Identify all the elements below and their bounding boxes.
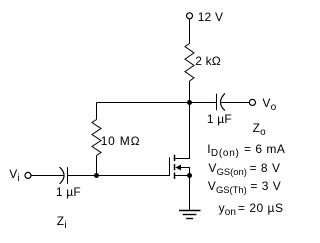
node source junction	[187, 173, 192, 178]
label VGS(Th) symbol	[208, 180, 247, 192]
transistor Q1 channel bottom segment	[174, 173, 176, 179]
label 12 V	[198, 11, 224, 23]
label yon value 20 uS	[238, 202, 283, 214]
terminal 12V supply	[187, 13, 193, 19]
transistor Q1 drain lead	[175, 103, 190, 159]
label VGS(on) symbol	[208, 162, 246, 174]
transistor Q1 channel middle segment	[174, 164, 176, 170]
wire gate lead	[97, 175, 170, 177]
wire body tie	[180, 168, 189, 176]
ground bar 2	[183, 214, 197, 216]
capacitor C1 straight plate	[67, 167, 69, 184]
terminal Vi	[25, 172, 31, 178]
label Vi	[9, 168, 19, 181]
capacitor C2 curved plate	[220, 93, 224, 110]
label 10 MOhm	[101, 135, 141, 147]
label yon symbol	[219, 202, 236, 215]
transistor Q1 source lead	[175, 175, 190, 177]
label 2 kOhm	[195, 55, 221, 67]
wire RF lower lead	[96, 156, 98, 176]
capacitor C1 curved plate	[60, 167, 64, 184]
ground bar 1	[179, 210, 201, 212]
label VGS(Th) value 3 V	[250, 180, 281, 192]
wire source to ground	[189, 176, 191, 211]
wire Vi to C1	[31, 175, 64, 177]
node gate junction	[94, 173, 99, 178]
label 1 uF input	[56, 186, 81, 198]
transistor Q1 channel top segment	[174, 155, 176, 161]
label ID(on) symbol	[207, 143, 239, 156]
resistor RD 2 kOhm	[185, 44, 194, 82]
wire C1 to gate node	[68, 175, 97, 177]
transistor Q1 gate bar	[169, 157, 171, 176]
wire feedback top	[97, 102, 190, 104]
wire supply stem	[189, 19, 191, 44]
label Zo	[253, 122, 266, 135]
label Vo	[262, 97, 276, 110]
label VGS(on) value 8 V	[250, 162, 281, 174]
terminal Vo	[249, 99, 255, 105]
wire drain trunk upper	[189, 81, 191, 103]
capacitor C2 straight plate	[216, 94, 218, 110]
wire drain to C2	[190, 102, 216, 104]
transistor Q1 body arrow	[175, 165, 181, 171]
wire C2 to Vo	[220, 102, 249, 104]
label Zi	[57, 215, 67, 228]
wire RF upper lead	[96, 103, 98, 120]
label 1 uF output	[207, 113, 232, 125]
label ID(on) value 6 mA	[244, 143, 285, 155]
ground bar 3	[186, 218, 193, 220]
node drain junction	[187, 100, 192, 105]
resistor RF 10 MOhm	[92, 120, 101, 156]
